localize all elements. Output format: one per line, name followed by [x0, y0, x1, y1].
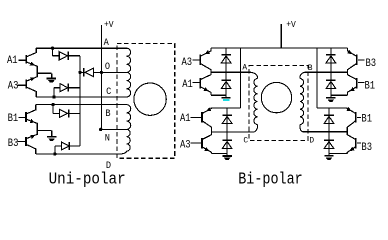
- wire net N: [101, 128, 127, 130]
- label A1: [7, 54, 18, 66]
- svg-text:B3: B3: [8, 137, 19, 149]
- wire base A3 lower: [191, 142, 202, 144]
- svg-text:B3: B3: [366, 57, 377, 69]
- wire net C: [36, 96, 126, 98]
- svg-text:A3: A3: [182, 56, 193, 68]
- transistor B3 lower (NPN): [347, 132, 356, 154]
- label tap C: [106, 85, 112, 97]
- node junction diode network: [78, 71, 81, 74]
- transistor A1 upper (NPN): [200, 72, 211, 95]
- node B junction: [51, 103, 54, 106]
- ground (lower-right bridge): [324, 156, 333, 160]
- winding A-O-C (phase A): [127, 48, 131, 97]
- node A junction: [51, 47, 54, 50]
- svg-text:B1: B1: [8, 112, 19, 124]
- ground (B pair): [47, 137, 56, 141]
- wire +V rail: [211, 47, 348, 49]
- diode clamp node C low: [222, 132, 232, 156]
- wire diode network vertical: [79, 56, 81, 146]
- diode D2 (net C clamp): [54, 84, 80, 97]
- winding A-C (bi-polar phase A): [251, 72, 258, 132]
- label B3 lower: [361, 141, 372, 153]
- wire base B1 lower: [357, 116, 361, 118]
- wire emitter B3 to ground: [329, 153, 347, 155]
- svg-text:+V: +V: [104, 19, 114, 30]
- svg-text:B1: B1: [361, 113, 372, 125]
- wire node B: [305, 71, 348, 73]
- svg-text:+V: +V: [286, 19, 296, 30]
- label tap A: [104, 37, 110, 49]
- wire base B3 lower: [357, 142, 361, 144]
- node O junction (+V to center tap O): [100, 71, 103, 74]
- diode D5 (net D clamp): [55, 142, 80, 154]
- label B1: [8, 112, 19, 124]
- transistor B3 (NPN): [26, 130, 37, 154]
- diode clamp node A low: [221, 72, 231, 97]
- wire emitter A3 to ground: [212, 153, 228, 155]
- winding B-N-D (phase B): [118, 105, 131, 154]
- svg-text:A3: A3: [180, 139, 191, 151]
- motor enclosure (dashed) bi-polar: [249, 65, 308, 140]
- label B1 lower: [361, 113, 372, 125]
- node C junction: [52, 95, 55, 98]
- power +V supply (bi-polar): [281, 19, 296, 48]
- svg-text:A1: A1: [180, 112, 191, 124]
- transistor A3 lower (NPN): [202, 132, 212, 154]
- label B3: [8, 137, 19, 149]
- wire emitter B1 to ground: [331, 94, 348, 96]
- ground (lower-left bridge): [222, 156, 231, 160]
- wire net D: [36, 153, 118, 155]
- diode D3 (common to +V, points left): [84, 68, 102, 76]
- wire +V drop right bridge: [316, 48, 318, 108]
- svg-text:A1: A1: [7, 54, 18, 66]
- label B1 upper: [365, 80, 376, 92]
- label tap O: [105, 60, 111, 72]
- wire base B3: [18, 141, 26, 143]
- svg-text:N: N: [105, 132, 110, 144]
- wire base B3 upper: [358, 59, 365, 61]
- label A3 upper: [182, 56, 193, 68]
- transistor B1 lower (PNP): [346, 107, 355, 132]
- wire net O segment: [80, 71, 127, 73]
- transistor A3 (NPN): [26, 73, 37, 97]
- label tap B: [105, 107, 111, 119]
- motor enclosure (dashed) uni-polar: [117, 43, 175, 158]
- title Uni-polar: [49, 169, 126, 188]
- wire lower rail right: [317, 107, 348, 109]
- wire base A1 lower: [191, 116, 202, 118]
- winding B-D (bi-polar phase B): [300, 72, 305, 132]
- label tap N: [105, 132, 110, 144]
- wire +V drop left bridge: [239, 48, 241, 108]
- wire base B1: [18, 117, 25, 119]
- wire base A1: [19, 59, 26, 61]
- transistor B1 (NPN): [26, 105, 37, 131]
- title Bi-polar: [238, 169, 303, 189]
- label node A: [242, 63, 247, 72]
- node D junction: [53, 152, 56, 155]
- wire node A: [211, 71, 251, 73]
- svg-text:A1: A1: [182, 78, 193, 90]
- svg-text:O: O: [105, 60, 111, 72]
- svg-text:B3: B3: [361, 141, 372, 153]
- motor rotor (uni-polar): [134, 83, 166, 115]
- diode D1 (net A clamp): [53, 48, 81, 60]
- diode clamp node D high: [324, 108, 334, 132]
- svg-text:C: C: [106, 85, 112, 97]
- diode D4 (net B clamp): [53, 105, 80, 118]
- wire node D: [303, 131, 348, 133]
- svg-text:A: A: [242, 63, 247, 72]
- label A1 upper: [182, 78, 193, 90]
- diode clamp node D low: [324, 132, 334, 156]
- label B3 upper: [366, 57, 377, 69]
- transistor A1 lower (PNP): [202, 107, 212, 132]
- ground (A pair): [47, 78, 56, 82]
- label node C: [243, 136, 248, 145]
- ground (upper-right bridge): [326, 98, 335, 102]
- svg-text:A: A: [104, 37, 110, 49]
- power +V supply (uni-polar): [101, 19, 114, 129]
- wire lower rail left: [210, 107, 240, 109]
- node N junction (+V to center tap N): [99, 128, 102, 131]
- wire base A3 upper: [193, 59, 200, 61]
- svg-text:C: C: [243, 136, 248, 145]
- diode clamp node B low: [326, 72, 336, 97]
- wire emitters A1/A3 to ground: [37, 73, 52, 78]
- label A1 lower: [180, 112, 191, 124]
- transistor B1 upper (NPN): [348, 72, 357, 95]
- diode clamp node A high: [221, 48, 231, 72]
- transistor A3 upper (PNP): [200, 48, 211, 72]
- label A3 lower: [180, 139, 191, 151]
- svg-text:Uni-polar: Uni-polar: [49, 169, 126, 188]
- label A3: [8, 80, 19, 92]
- diode clamp node C high: [222, 108, 232, 132]
- wire net B: [36, 104, 127, 106]
- svg-text:B: B: [105, 107, 111, 119]
- label node B: [308, 64, 313, 73]
- wire net A: [36, 47, 126, 49]
- diode clamp node B high: [326, 48, 336, 72]
- svg-text:D: D: [309, 136, 314, 145]
- wire node C: [212, 131, 254, 133]
- transistor A1 (NPN): [26, 48, 37, 73]
- label tap D: [106, 160, 112, 172]
- wire emitters B1/B3 to ground: [37, 130, 51, 136]
- wire base A1 upper: [193, 81, 200, 83]
- wire base B1 upper: [358, 81, 365, 83]
- wire base A3: [18, 84, 26, 86]
- transistor B3 upper (PNP): [347, 48, 357, 72]
- label node D: [309, 136, 314, 145]
- motor rotor (bi-polar): [261, 82, 291, 112]
- svg-text:A3: A3: [8, 80, 19, 92]
- ground (upper-left bridge, cyan): [222, 98, 231, 100]
- wire emitter A1 to ground: [211, 94, 226, 96]
- svg-text:B1: B1: [365, 80, 376, 92]
- svg-text:Bi-polar: Bi-polar: [238, 169, 303, 189]
